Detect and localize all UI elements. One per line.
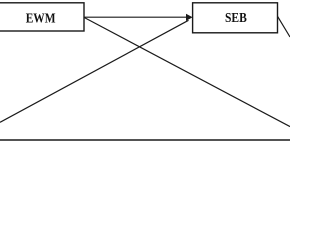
wire diagonal from SEB right edge down-right [278, 16, 290, 37]
arrowhead at SEB left edge [186, 14, 193, 21]
svg-text:SEB: SEB [225, 10, 247, 25]
svg-text:EWM: EWM [26, 11, 56, 26]
box EWM [0, 3, 84, 31]
box SEB [193, 3, 278, 33]
wire diagonal from lower-left to SEB [0, 20, 189, 122]
wire diagonal from EWM down to right edge [84, 17, 290, 126]
wire arrow EWM to SEB (horizontal) [84, 16, 187, 18]
wire horizontal bottom line [0, 139, 290, 141]
